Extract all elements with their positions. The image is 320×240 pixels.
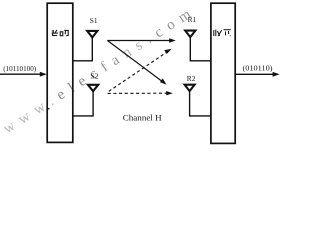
stray arrowhead on box left edge (47, 107, 50, 110)
receiver box label (CJK glyph strokes) (214, 30, 231, 37)
input arrowhead (40, 72, 47, 77)
receiver box (211, 3, 235, 143)
svg-text:S2: S2 (91, 71, 99, 80)
wire box to S2 (73, 115, 94, 117)
svg-text:Channel H: Channel H (123, 113, 162, 122)
wire R1 to box (190, 60, 211, 62)
output wire (235, 73, 273, 75)
watermark www.elecfans.com diagonal (1, 3, 200, 138)
wire R2 to box (189, 115, 211, 117)
svg-text:R1: R1 (188, 15, 197, 24)
wire box to S1 (73, 60, 93, 62)
antenna R1 (185, 31, 195, 61)
channel path S2-R2 dashed (108, 91, 173, 95)
transmitter box label (CJK glyph strokes) (52, 30, 69, 36)
antenna S1 (87, 31, 97, 61)
svg-text:R2: R2 (187, 74, 196, 83)
channel path S1-R1 solid (107, 38, 175, 42)
input wire (0, 73, 41, 75)
antenna S2 (88, 85, 98, 116)
transmitter box (47, 3, 73, 142)
channel path S1-R2 solid (107, 41, 166, 85)
channel path S2-R1 dashed (109, 49, 172, 91)
svg-text:(10110100): (10110100) (3, 64, 36, 73)
svg-text:S1: S1 (90, 16, 98, 25)
svg-text:(010110): (010110) (243, 64, 274, 73)
antenna R2 (185, 85, 195, 116)
output arrowhead (273, 72, 280, 77)
